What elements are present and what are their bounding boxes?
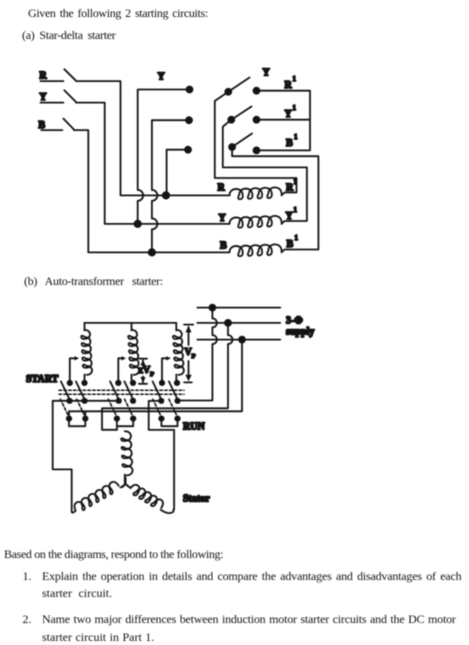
svg-text:Y: Y — [286, 211, 294, 222]
svg-text:3-Φ: 3-Φ — [286, 316, 303, 327]
svg-text:B: B — [38, 120, 45, 131]
svg-text:B: B — [220, 241, 227, 252]
svg-text:Y: Y — [158, 72, 166, 83]
svg-text:B: B — [287, 239, 294, 250]
svg-text:R: R — [285, 80, 293, 91]
svg-text:R: R — [218, 183, 226, 194]
svg-text:Y: Y — [285, 109, 293, 120]
svg-text:1: 1 — [293, 105, 297, 112]
svg-text:START: START — [26, 374, 59, 385]
svg-text:1: 1 — [294, 207, 298, 214]
svg-text:R: R — [39, 71, 47, 82]
svg-text:1: 1 — [294, 134, 298, 141]
svg-text:Y: Y — [39, 92, 47, 103]
svg-text:Y: Y — [263, 68, 271, 79]
svg-text:Stator: Stator — [183, 494, 210, 505]
svg-text:RUN: RUN — [183, 422, 205, 433]
svg-text:1: 1 — [295, 235, 299, 242]
svg-text:P: P — [192, 353, 196, 360]
svg-text:B: B — [286, 138, 293, 149]
svg-text:P: P — [150, 371, 154, 378]
svg-text:supply: supply — [286, 327, 314, 338]
svg-text:1: 1 — [294, 179, 298, 186]
svg-text:Y: Y — [219, 213, 227, 224]
svg-text:1: 1 — [293, 76, 297, 83]
